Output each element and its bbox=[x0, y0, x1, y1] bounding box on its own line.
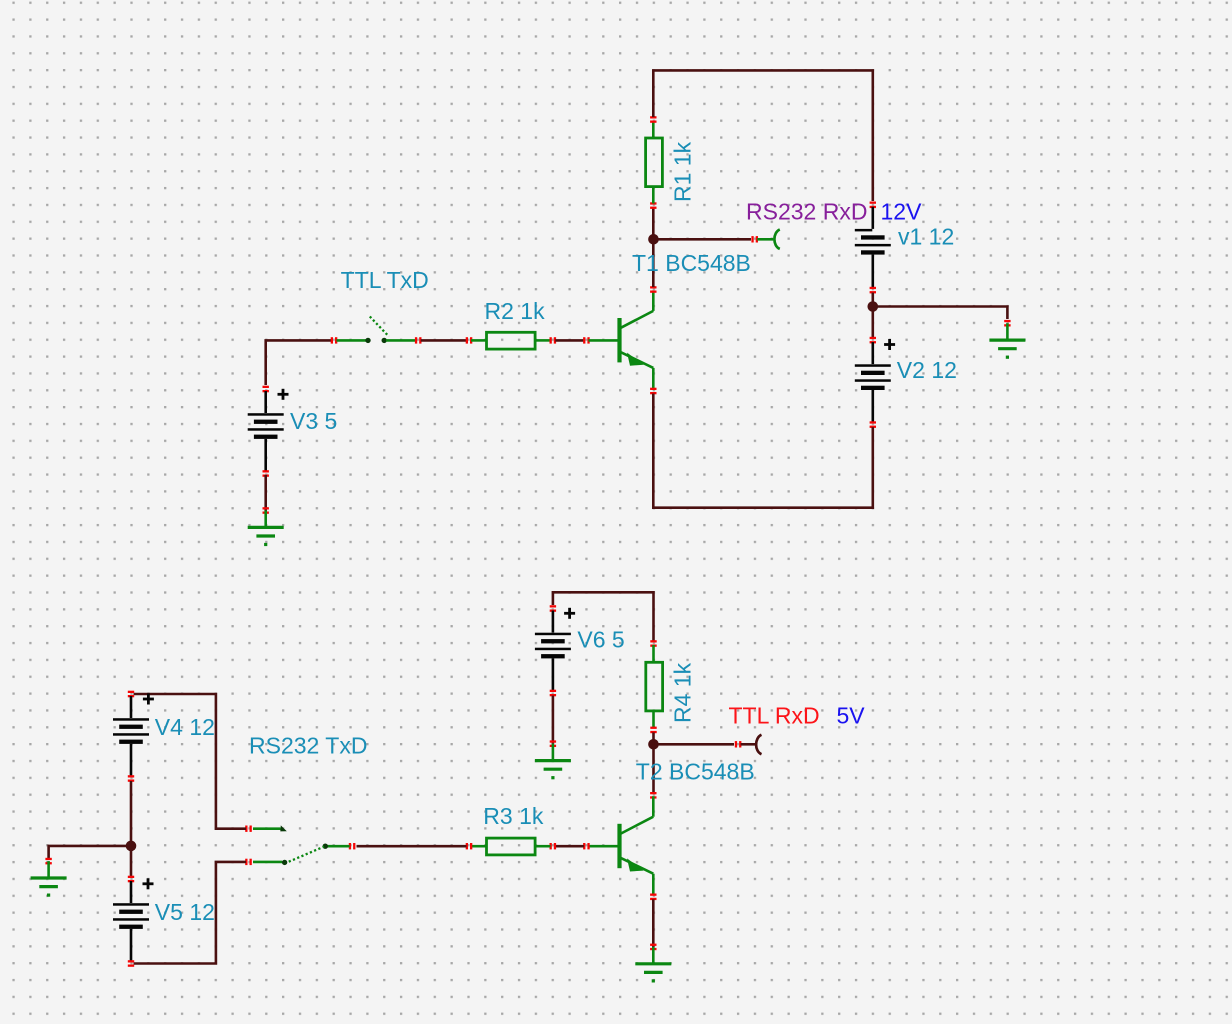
node: R2 right pin ticks bbox=[550, 337, 557, 343]
wire collector to node A to R1 bbox=[652, 208, 655, 287]
svg-text:RS232 TxD: RS232 TxD bbox=[249, 733, 367, 759]
wire node B to V2 bbox=[871, 307, 874, 339]
svg-text:T1 BC548B: T1 BC548B bbox=[632, 250, 751, 276]
node: V2 top pin ticks bbox=[870, 337, 876, 344]
svg-text:V4 12: V4 12 bbox=[155, 714, 215, 740]
node: SW2 lower throw ticks bbox=[245, 859, 252, 865]
transistor T2 BC548B bbox=[589, 796, 654, 895]
wire V3 to ground bbox=[264, 475, 267, 511]
switch SW2 upper throw open mark bbox=[280, 825, 287, 831]
node: left ground ticks bbox=[45, 858, 51, 865]
node: T2 ground ticks bbox=[650, 944, 656, 951]
node: R3 right pin ticks bbox=[550, 843, 557, 849]
junction node C bbox=[648, 739, 659, 750]
battery V2 plus bbox=[884, 339, 895, 350]
node: R1 bottom pin ticks bbox=[650, 202, 656, 209]
junction node B bbox=[868, 301, 879, 312]
node: V3 ground ticks bbox=[263, 507, 269, 514]
node: V3 top pin ticks bbox=[263, 386, 269, 393]
wire node D to left ground bbox=[49, 846, 131, 859]
node: R2 left pin ticks bbox=[466, 337, 473, 343]
wire V6 top loop to R4 bbox=[553, 592, 654, 641]
ground below V6 bbox=[535, 744, 571, 778]
svg-text:12V: 12V bbox=[881, 199, 923, 225]
wire R3 to T2 base bbox=[555, 845, 584, 848]
svg-text:TTL TxD: TTL TxD bbox=[341, 267, 429, 293]
resistor R3 leads bbox=[471, 845, 487, 848]
svg-text:v1 12: v1 12 bbox=[898, 224, 954, 250]
battery V5 bbox=[113, 881, 149, 962]
wire node C to T2 collector bbox=[652, 744, 655, 793]
battery V4 bbox=[113, 696, 149, 777]
wire SW2 pole lead bbox=[327, 845, 350, 848]
node: R1 top pin ticks bbox=[650, 116, 656, 123]
wire V6 to ground bbox=[552, 696, 555, 744]
node: R3 left pin ticks bbox=[466, 843, 473, 849]
resistor R3 body bbox=[487, 838, 536, 855]
svg-text:R3 1k: R3 1k bbox=[483, 803, 544, 829]
node: RxD connector ticks bbox=[751, 236, 758, 242]
svg-text:V2 12: V2 12 bbox=[897, 357, 957, 383]
node: T1 emitter ticks bbox=[650, 388, 656, 395]
resistor R1 leads bbox=[652, 188, 655, 204]
junction node D bbox=[126, 841, 137, 852]
node: V6 ground ticks bbox=[550, 740, 556, 747]
wire V2 to T1 emitter rail bbox=[653, 394, 873, 508]
node: right ground ticks bbox=[1004, 320, 1010, 327]
battery V2 bbox=[855, 342, 891, 423]
wire V3 top corner to switch bbox=[266, 340, 331, 385]
svg-text:R1 1k: R1 1k bbox=[670, 141, 696, 202]
wire switch input lead bbox=[337, 339, 367, 342]
node: V4 top pin ticks bbox=[128, 691, 134, 698]
node: T2 emitter ticks bbox=[650, 894, 656, 901]
wire node B to right ground bbox=[873, 307, 1008, 320]
wire R1 top loop to V1 bbox=[653, 70, 873, 201]
ground below T2 bbox=[635, 947, 671, 981]
wire switch output lead bbox=[386, 339, 415, 342]
node: V6 top pin ticks bbox=[550, 605, 556, 612]
node: switch SW2 output ticks bbox=[349, 843, 356, 849]
node: switch input ticks bbox=[331, 337, 338, 343]
switch SW1 lever (open) bbox=[370, 317, 389, 337]
switch SW2 lever (dotted, closed to lower throw) bbox=[285, 847, 325, 864]
node: V1 top pin ticks bbox=[870, 202, 876, 209]
switch SW1 left contact bbox=[365, 338, 370, 343]
wire switch to R2 bbox=[421, 339, 467, 342]
wire node C to TTL RxD connector bbox=[654, 743, 735, 746]
node: V6 bottom pin ticks bbox=[550, 690, 556, 697]
resistor R2 leads bbox=[471, 339, 487, 342]
wire R2 to T1 base bbox=[555, 339, 584, 342]
node: SW2 upper throw ticks bbox=[245, 826, 252, 832]
wire connector lead bbox=[757, 238, 773, 241]
connector arc TTL RxD bbox=[756, 735, 761, 754]
node: V4 bottom pin ticks bbox=[128, 775, 134, 782]
node: T1 base pin ticks bbox=[583, 337, 590, 343]
node: V5 bottom pin ticks bbox=[128, 960, 134, 967]
svg-text:5V: 5V bbox=[837, 703, 866, 729]
node: V1 bottom pin ticks bbox=[870, 287, 876, 294]
node: V2 bottom pin ticks bbox=[870, 421, 876, 428]
wire SW2 upper throw lead bbox=[253, 827, 281, 830]
battery V4 plus bbox=[143, 694, 154, 705]
battery V3 bbox=[248, 391, 284, 472]
svg-text:V3 5: V3 5 bbox=[290, 408, 337, 434]
resistor R4 leads bbox=[652, 645, 655, 662]
battery V1 (top plate half clipped by 12V label) bbox=[855, 207, 891, 288]
ground below V3 bbox=[248, 511, 284, 545]
battery V6 plus bbox=[564, 608, 575, 619]
node: T2 collector ticks bbox=[650, 792, 656, 799]
battery V6 bbox=[535, 611, 571, 692]
node: T2 base pin ticks bbox=[583, 843, 590, 849]
svg-text:V5 12: V5 12 bbox=[155, 899, 215, 925]
junction node A bbox=[648, 234, 659, 245]
svg-text:RS232 RxD: RS232 RxD bbox=[746, 199, 867, 225]
wire connector lead maroon bbox=[741, 743, 755, 746]
ground left bbox=[31, 861, 67, 895]
battery V3 plus bbox=[278, 389, 289, 400]
svg-text:V6 5: V6 5 bbox=[577, 627, 624, 653]
transistor T1 BC548B bbox=[589, 290, 654, 389]
node: V3 bottom pin ticks bbox=[263, 470, 269, 477]
wire V4 to node D to V5 bbox=[130, 781, 133, 876]
connector arc RS232 RxD bbox=[774, 230, 779, 249]
svg-text:R4 1k: R4 1k bbox=[670, 662, 696, 723]
switch SW2 lower throw contact bbox=[282, 860, 287, 865]
resistor R2 body bbox=[487, 332, 536, 349]
switch SW2 pole contact bbox=[323, 844, 328, 849]
svg-text:TTL RxD: TTL RxD bbox=[729, 703, 820, 729]
resistor R1 body bbox=[646, 138, 663, 187]
battery V5 plus bbox=[143, 878, 154, 889]
resistor R4 body bbox=[646, 662, 663, 711]
switch SW1 right contact bbox=[382, 338, 387, 343]
node: T1 collector ticks bbox=[650, 286, 656, 293]
wire SW2 lower throw lead bbox=[253, 861, 282, 864]
node: V5 top pin ticks bbox=[128, 876, 134, 883]
wire T2 emitter to ground bbox=[652, 899, 655, 947]
wire switch to R3 bbox=[357, 845, 467, 848]
wire node A to RS232 RxD connector bbox=[654, 238, 752, 241]
node: switch output ticks bbox=[415, 337, 422, 343]
svg-text:R2 1k: R2 1k bbox=[485, 298, 546, 324]
wire V1 to node B bbox=[871, 293, 874, 307]
svg-text:T2 BC548B: T2 BC548B bbox=[636, 759, 755, 785]
ground right of V2 bbox=[989, 323, 1025, 357]
wire lower throw to V5 bottom bbox=[134, 862, 247, 964]
node: TTL RxD connector ticks bbox=[735, 741, 742, 747]
node: R4 top pin ticks bbox=[650, 640, 656, 647]
wire R4 to node C bbox=[652, 732, 655, 744]
node: R4 bottom pin ticks bbox=[650, 727, 656, 734]
wire upper throw to V4 top bbox=[134, 694, 247, 829]
